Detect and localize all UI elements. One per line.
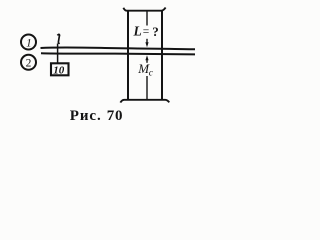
svg-text:?: ? — [152, 24, 159, 39]
svg-text:=: = — [143, 26, 150, 38]
dimension line L upper segment — [146, 11, 148, 26]
label Mc — [137, 61, 154, 79]
tube right wall — [161, 11, 163, 100]
svg-text:c: c — [149, 68, 154, 78]
line Mc lower segment — [146, 76, 148, 100]
arrowhead down at wire — [145, 42, 148, 47]
svg-text:Рис.: Рис. — [70, 108, 102, 124]
label l (length mark above wires) — [57, 34, 59, 43]
label L=? — [133, 24, 159, 39]
wire 2 (bottom horizontal line) — [41, 53, 195, 54]
node label circle 1 — [21, 35, 36, 50]
weight box 10 — [51, 63, 69, 76]
line Mc upper segment — [146, 59, 148, 63]
node label circle 2 — [21, 55, 36, 70]
caption Ris. 70 — [70, 108, 123, 124]
svg-text:L: L — [133, 24, 142, 39]
svg-text:70: 70 — [107, 108, 123, 124]
tube bottom broken end — [120, 100, 169, 103]
svg-text:1: 1 — [26, 37, 32, 49]
wire 1 (top horizontal line) — [41, 47, 196, 49]
svg-text:10: 10 — [53, 64, 64, 76]
tube left wall — [127, 11, 129, 100]
arrowhead up below wire — [145, 55, 148, 60]
tube top broken end — [123, 8, 165, 11]
hanger wire — [57, 44, 59, 64]
svg-text:2: 2 — [26, 58, 32, 70]
dimension line L lower segment — [146, 39, 148, 45]
